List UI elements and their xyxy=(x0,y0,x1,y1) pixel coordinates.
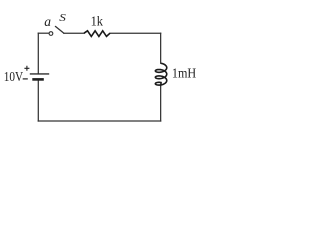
wire: top-left horizontal stub to node a terminal xyxy=(38,32,48,34)
wire: resistor right lead to top-right corner xyxy=(110,32,161,34)
battery: long plus plate xyxy=(30,73,49,75)
wire: switch pivot to resistor left lead xyxy=(64,32,84,34)
svg-text:1k: 1k xyxy=(91,14,103,29)
wire: left vertical, top-left corner down to battery plus plate xyxy=(37,33,39,74)
wire: left vertical, battery minus plate down to bottom-left corner xyxy=(37,81,39,122)
polarity minus sign xyxy=(23,78,28,80)
wire: bottom horizontal return xyxy=(38,120,160,122)
polarity plus sign xyxy=(24,66,29,71)
svg-text:a: a xyxy=(44,14,51,29)
wire: right vertical, inductor bottom down to bottom-right corner xyxy=(160,86,162,121)
inductor L coil (3 loops) xyxy=(155,63,166,86)
resistor R 1k zigzag xyxy=(84,31,110,37)
svg-text:1mH: 1mH xyxy=(172,67,196,82)
svg-text:S: S xyxy=(59,11,66,24)
battery: short minus plate (thick) xyxy=(32,78,44,81)
node a open terminal circle xyxy=(49,32,53,36)
wire: right vertical, top-right corner down to inductor top xyxy=(160,33,162,63)
svg-text:10V: 10V xyxy=(4,70,23,85)
switch S blade (open) xyxy=(55,26,64,33)
